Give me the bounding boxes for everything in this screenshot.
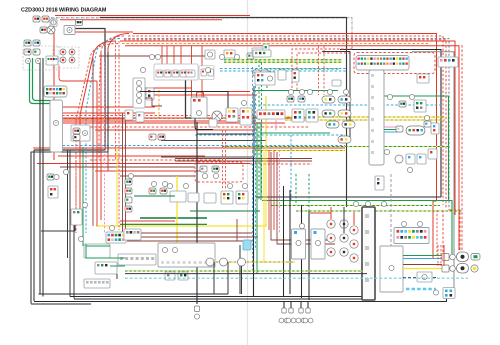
horn connectors bbox=[149, 134, 156, 140]
wire red dash pair into ecu bbox=[318, 46, 320, 95]
wire green dash staircase 1 bbox=[271, 205, 440, 207]
box top centre 1 bbox=[253, 50, 271, 57]
tail oval black 2 bbox=[457, 264, 469, 274]
wire gray dash vertical right bbox=[390, 174, 392, 247]
o2 sensor oval bbox=[406, 126, 425, 135]
wire red from relay box bbox=[75, 31, 133, 33]
wire black centre elbow bbox=[197, 133, 254, 135]
starter relay circle bbox=[47, 26, 55, 34]
ground bus line 4 bbox=[34, 288, 447, 302]
cyan block right bbox=[243, 240, 251, 250]
meter green wires bbox=[86, 245, 110, 247]
ground bus line 5 bbox=[31, 303, 91, 305]
wire red dash centre bbox=[90, 126, 310, 128]
bulb pair centre white area bbox=[253, 70, 260, 76]
tail wires yellow bbox=[403, 268, 468, 270]
comp cluster in dash box bbox=[200, 166, 207, 172]
wire red dash left 160 bbox=[90, 159, 222, 161]
starter relay tall dark box bbox=[362, 207, 375, 300]
switch boxes row bbox=[170, 191, 186, 202]
wire red fuse drop bbox=[59, 66, 97, 81]
wire green long right bbox=[262, 201, 452, 259]
wire red left 160b bbox=[37, 163, 250, 165]
maroon bottom-left runs bbox=[133, 232, 252, 234]
maroon elbows centre bbox=[271, 152, 330, 240]
ignition coil circles column 2 bbox=[340, 220, 348, 228]
handlebar switch coupler bbox=[44, 86, 67, 97]
black drops meter bbox=[116, 274, 118, 279]
wire blue dash mid 135 bbox=[195, 134, 345, 136]
harness box around ecu coupler bbox=[354, 53, 435, 74]
vertical drops to ground bus bbox=[213, 262, 215, 294]
rear black dash wire bbox=[403, 277, 437, 279]
wire red left 156 bbox=[58, 155, 205, 157]
centre extra vertical pink bbox=[279, 150, 281, 233]
rear blue grid connector bbox=[443, 288, 455, 299]
spark plug stubs bbox=[283, 302, 285, 309]
small box under relays bbox=[209, 119, 217, 127]
outer black pair lower bbox=[31, 52, 108, 304]
ground bus line 3 bbox=[74, 265, 367, 299]
meter sub box left bbox=[84, 244, 110, 258]
sensor ovals right-centre bbox=[322, 96, 335, 103]
wire green dash engine top 1 bbox=[224, 59, 342, 61]
wire top red feed bbox=[55, 15, 250, 17]
ignition coil circles column 1 bbox=[327, 220, 335, 228]
red fuse link hook bbox=[197, 92, 204, 101]
rear big white box bbox=[380, 246, 403, 292]
circ labels left cluster bbox=[25, 58, 30, 63]
flasher pin blocks bbox=[221, 191, 233, 204]
maroon elbow right of junction bbox=[145, 98, 162, 106]
centre 2x2 grids bbox=[292, 109, 304, 122]
wire green centre upper bbox=[253, 90, 338, 92]
left column connector A bbox=[47, 174, 54, 180]
bottom yellow dash wire bbox=[216, 261, 295, 263]
wire blue dash engine top 2 bbox=[220, 70, 346, 72]
tail wires green bbox=[403, 255, 442, 257]
red feeder verticals to relay boxes bbox=[161, 46, 163, 64]
left lower box bbox=[71, 209, 82, 225]
green dash inner box top bbox=[267, 69, 340, 88]
left column connector B bbox=[48, 186, 58, 198]
flasher round relay bbox=[212, 111, 222, 121]
wire blue dash vertical drop bbox=[290, 135, 292, 200]
vert red dash 119 bbox=[118, 41, 120, 230]
centre extra verticals red bbox=[268, 150, 270, 230]
wire maroon left 167 bbox=[60, 166, 195, 168]
red vertical rear corner bbox=[437, 245, 439, 266]
wire blue dash long mid bbox=[250, 104, 443, 106]
maroon verticals from handlebar bbox=[122, 113, 124, 233]
wire red dash mid 164 bbox=[250, 163, 312, 165]
dashed fuse group box bbox=[53, 47, 79, 68]
wire yellow long bbox=[96, 224, 266, 226]
tail light connector square 1 bbox=[442, 254, 449, 261]
wire yellow corner bbox=[265, 96, 267, 224]
bulb green right bbox=[247, 53, 254, 59]
wire gray right bbox=[412, 52, 454, 298]
wire red dash right pair lower bbox=[436, 210, 438, 256]
sub box right of switch bbox=[71, 125, 90, 141]
harness bundle red dash F bbox=[124, 40, 446, 208]
ecu bottom small box bbox=[375, 176, 384, 190]
connector red black centre area bbox=[292, 70, 299, 82]
green line centre 133 bbox=[260, 132, 330, 134]
left green wire pair bbox=[30, 58, 51, 104]
wire red verticals fuse bbox=[191, 46, 193, 98]
spark plug caps bbox=[282, 308, 286, 313]
maroon thick pair bbox=[175, 158, 312, 160]
connector black top bbox=[76, 20, 83, 26]
harness right red dash edge bbox=[461, 45, 463, 252]
ground symbol centre bbox=[195, 306, 200, 312]
red handlebar run 1 bbox=[62, 106, 155, 108]
vert red dash 76 bbox=[75, 120, 77, 233]
wire red mid left 1 bbox=[140, 87, 192, 89]
vert yellow 117 bbox=[116, 148, 118, 226]
wire blue dash engine top 1 bbox=[220, 68, 346, 70]
meter coupler colored bbox=[106, 232, 126, 243]
tail yellow bulb bbox=[471, 265, 478, 272]
maroon drop 237 bbox=[236, 219, 238, 241]
green link wires left stack bbox=[134, 195, 175, 197]
ignition coil circles column 3 bbox=[350, 226, 358, 234]
component pair above fuse bbox=[205, 50, 215, 59]
relay cluster connectors left bbox=[146, 88, 154, 100]
connector cluster left 2 bbox=[24, 49, 31, 55]
ground bus line 1 bbox=[39, 293, 229, 295]
vert red 101 bbox=[100, 52, 102, 220]
ecu coupler multi-pin bbox=[356, 56, 409, 71]
rear cyan dash wire bbox=[406, 288, 436, 290]
black top elbow 91 bbox=[140, 92, 228, 109]
small box circle top centre bbox=[252, 48, 263, 57]
wire red mid left 3 bbox=[140, 94, 257, 96]
right mid connectors bbox=[395, 155, 403, 163]
connector orange pins bbox=[224, 50, 235, 58]
relay right small bbox=[417, 74, 429, 83]
connector pair top-left 1 bbox=[33, 16, 40, 22]
wire yellow dash long 2 bbox=[285, 119, 445, 121]
meter assembly box bbox=[158, 243, 215, 267]
wire maroon left 176 bbox=[120, 175, 195, 177]
main relay box 2 bbox=[64, 26, 75, 35]
wire top red 2 bbox=[60, 19, 222, 21]
main switch tall box bbox=[50, 100, 63, 152]
small colored stub wires bbox=[384, 126, 398, 128]
wire black centre 2 bbox=[253, 157, 255, 296]
wire red left 171 bbox=[95, 170, 205, 172]
white box centre area bbox=[278, 70, 286, 80]
box top centre 3 bbox=[332, 80, 341, 86]
box top centre 2 bbox=[255, 72, 275, 85]
headlight connectors bbox=[149, 188, 156, 194]
diagnostic connector pink bbox=[438, 57, 458, 67]
fuse connectors round bbox=[60, 49, 66, 55]
tail light connector square 2 bbox=[442, 265, 449, 272]
black elbow centre top bbox=[322, 52, 350, 138]
vert pink dash 104 bbox=[104, 62, 106, 233]
red handlebar run bbox=[62, 120, 255, 122]
sensor pair lower right bbox=[424, 121, 431, 127]
wire top checker dash sky bbox=[47, 18, 352, 50]
wire black long 197 bbox=[255, 196, 441, 198]
wire red dash verticals centre low bbox=[222, 130, 224, 190]
wire blue dash lower mid bbox=[58, 145, 345, 147]
round connectors above ground bus bbox=[206, 258, 214, 266]
ecu main tall box bbox=[369, 70, 384, 165]
left connector strip meter bbox=[118, 254, 156, 265]
red handlebar run 3 bbox=[62, 118, 133, 120]
red dash handlebar run bbox=[62, 115, 255, 117]
vert red 97 bbox=[96, 81, 98, 226]
wire red centre 3 bbox=[95, 129, 257, 131]
wire green dash staircase 2 bbox=[296, 210, 462, 212]
wire green centre pair bbox=[260, 122, 262, 200]
wire green dash engine top 2 bbox=[224, 61, 342, 63]
centre multi-pin strip bbox=[257, 110, 285, 119]
tail wires blue bbox=[403, 258, 442, 260]
wire green right upper bbox=[370, 96, 449, 201]
extra circled numbers bbox=[149, 54, 154, 59]
orange dash handlebar run bbox=[62, 118, 300, 120]
wire red vertical starter bbox=[53, 33, 55, 160]
rear coupler block bbox=[394, 228, 429, 244]
injector boxes bbox=[292, 229, 306, 259]
lower small connectors row bbox=[165, 272, 175, 280]
relay boxes group mid bbox=[154, 64, 198, 80]
wire maroon upper bbox=[99, 55, 205, 57]
green pin connector top centre bbox=[263, 44, 269, 52]
rear box circled bbox=[417, 272, 432, 282]
coil feed stubs bbox=[330, 207, 332, 219]
wire top checker dash red bbox=[46, 18, 352, 50]
wire green heavy mid-left bbox=[140, 217, 207, 219]
wire green dash long mid bbox=[222, 146, 448, 148]
green wire meter link bbox=[110, 265, 125, 267]
green dash frame verticals centre bbox=[258, 61, 260, 201]
wire black elbow under switch bbox=[41, 210, 75, 231]
centre connector pair upper bbox=[287, 96, 294, 102]
wire battery cable thick from relay box bbox=[34, 29, 105, 151]
wire red lower mid bbox=[33, 147, 345, 149]
junction list box bbox=[133, 78, 145, 108]
vert maroon 93 bbox=[92, 58, 94, 226]
red stub left 221 bbox=[120, 220, 175, 222]
relay pair right bbox=[226, 108, 238, 122]
third round connector bbox=[238, 258, 246, 266]
wire yellow dash short bbox=[252, 150, 345, 152]
black drop right of meter bbox=[239, 245, 241, 294]
wire black right frame bbox=[340, 50, 441, 198]
wire yellow dash long bbox=[252, 116, 445, 118]
tail circle 1 bbox=[450, 254, 456, 260]
wire red centre 2 bbox=[62, 122, 285, 124]
wire top black battery cable bbox=[100, 18, 347, 208]
blue dash frame verticals centre bbox=[252, 67, 254, 270]
dark elbow to meter 2 bbox=[161, 86, 254, 157]
ground bus line 2 bbox=[70, 262, 362, 297]
wire green centre down bbox=[256, 122, 258, 274]
immobilizer box left bbox=[95, 262, 117, 274]
connector cluster left 1 bbox=[24, 40, 31, 46]
tail green connector bbox=[471, 254, 480, 261]
bottom cyan dash wire bbox=[125, 277, 468, 279]
fuse box mid bbox=[191, 97, 207, 118]
vert green 83 bbox=[82, 147, 84, 246]
wire yellow vertical bbox=[176, 176, 178, 247]
harness bundle blue dash bbox=[86, 39, 120, 234]
spark plug coil verticals bbox=[283, 186, 285, 297]
harness bundle red dash B bbox=[99, 36, 124, 160]
grid connector lower left bbox=[84, 279, 110, 288]
left connector stack bbox=[125, 179, 132, 185]
harness dash box meter area bbox=[195, 162, 243, 182]
harness dash step bbox=[449, 210, 460, 258]
sensor oval lower bbox=[338, 136, 351, 143]
wire red centre 1 bbox=[62, 117, 310, 119]
wire black centre down to ground bbox=[196, 122, 198, 304]
battery symbol bbox=[40, 27, 47, 33]
page centre crease bbox=[247, 0, 249, 345]
svg-text:CZD300J 2018 WIRING DIAGRAM: CZD300J 2018 WIRING DIAGRAM bbox=[21, 8, 107, 14]
vert red dash 115 bbox=[115, 41, 117, 160]
red handlebar run 2 bbox=[62, 112, 155, 114]
bottom green-yellow wire bbox=[125, 270, 363, 272]
bottom black wire bbox=[125, 273, 367, 275]
tail oval black 1 bbox=[457, 252, 469, 262]
right sensor connectors upper bbox=[399, 101, 406, 107]
pink dash stub centre bbox=[275, 112, 277, 132]
relay box 3 bbox=[50, 19, 57, 27]
tail wires maroon bbox=[403, 264, 442, 266]
orange dash stub bbox=[158, 90, 160, 118]
harness bundle red A bbox=[108, 34, 129, 172]
left black wire pair bbox=[39, 58, 41, 294]
dashed group box left bbox=[23, 46, 59, 70]
wire yellow centre down bbox=[263, 152, 265, 263]
wire green dash verticals centre bbox=[295, 174, 297, 205]
harness bundle red E bbox=[125, 46, 459, 250]
harness bundle red D bbox=[80, 41, 116, 210]
black elbow fusebox bottom bbox=[195, 118, 213, 130]
red dash frame centre bbox=[292, 49, 352, 88]
harness bundle orange dash bbox=[76, 44, 118, 234]
left small grid bbox=[124, 229, 141, 240]
wire red mid left 2 bbox=[140, 91, 250, 93]
wire black pair below switch bbox=[67, 150, 69, 258]
wire black thick relay elbow bbox=[186, 76, 208, 118]
relay boxes group mid 2 bbox=[199, 66, 214, 80]
tail circle 2 bbox=[450, 266, 456, 272]
fuse box grid bbox=[46, 56, 58, 65]
harness dash vertical right inner bbox=[442, 210, 444, 252]
dark elbow to meter 1 bbox=[161, 96, 266, 141]
